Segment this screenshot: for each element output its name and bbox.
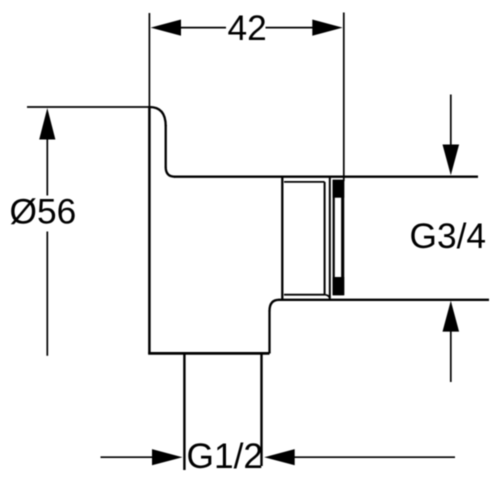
dimension 42 line right segment bbox=[266, 27, 316, 29]
dimension G3/4 lower arrowhead bbox=[443, 301, 460, 332]
thread shoulder left edge bbox=[281, 177, 283, 300]
flange right edge bbox=[165, 125, 167, 168]
dimension G3/4 lower arrow stem bbox=[450, 329, 452, 382]
thread end face vertical line bbox=[329, 177, 331, 300]
thread seal band right edge bbox=[341, 180, 344, 295]
flange and body bottom line bbox=[148, 352, 269, 355]
dimension G3/4 upper arrowhead bbox=[443, 145, 460, 176]
svg-text:42: 42 bbox=[228, 9, 267, 48]
thread chamfer inner vertical line bbox=[324, 182, 326, 295]
dimension D56 line upper segment bbox=[46, 137, 48, 196]
body top line merged with G3/4 top extension line bbox=[174, 175, 478, 177]
dimension G3/4 upper arrow stem bbox=[450, 95, 452, 148]
dimension G1/2 right arrowhead bbox=[264, 449, 295, 465]
pipe outlet left edge bbox=[183, 354, 185, 470]
dimension G1/2 line left segment bbox=[101, 456, 156, 458]
svg-text:Ø56: Ø56 bbox=[10, 193, 77, 232]
dimension 42 left arrowhead bbox=[151, 20, 181, 36]
thread face bottom corner curve bbox=[325, 295, 330, 300]
thread seal band bottom solid fill bbox=[333, 277, 345, 295]
flange top rounded corner bbox=[149, 107, 165, 126]
dimension D56 line lower segment bbox=[46, 232, 48, 356]
thread top chamfer line bbox=[284, 181, 325, 183]
thread seal band top solid fill bbox=[333, 180, 345, 198]
dimension 42 line left segment bbox=[178, 27, 226, 29]
thread bottom chamfer line bbox=[284, 294, 325, 296]
flange left edge bbox=[148, 106, 151, 354]
svg-text:G1/2: G1/2 bbox=[187, 437, 264, 476]
pipe outlet right edge bbox=[260, 354, 262, 466]
dimension G1/2 left arrowhead bbox=[152, 449, 183, 465]
body bottom right vertical edge bbox=[268, 311, 270, 354]
thread bottom line merged with G3/4 bottom extension line bbox=[279, 299, 490, 301]
dimension 42 right extension line bbox=[343, 13, 345, 182]
dimension D56 top extension line bbox=[27, 106, 150, 108]
svg-text:G3/4: G3/4 bbox=[410, 217, 487, 256]
dimension 42 left extension line bbox=[148, 13, 150, 106]
dimension G1/2 line right segment bbox=[292, 456, 455, 458]
body bottom right fillet bbox=[270, 300, 280, 311]
dimension 42 right arrowhead bbox=[312, 20, 342, 36]
flange to body fillet bbox=[166, 167, 175, 177]
dimension D56 up arrowhead bbox=[39, 108, 55, 140]
thread seal band left edge bbox=[333, 180, 335, 295]
